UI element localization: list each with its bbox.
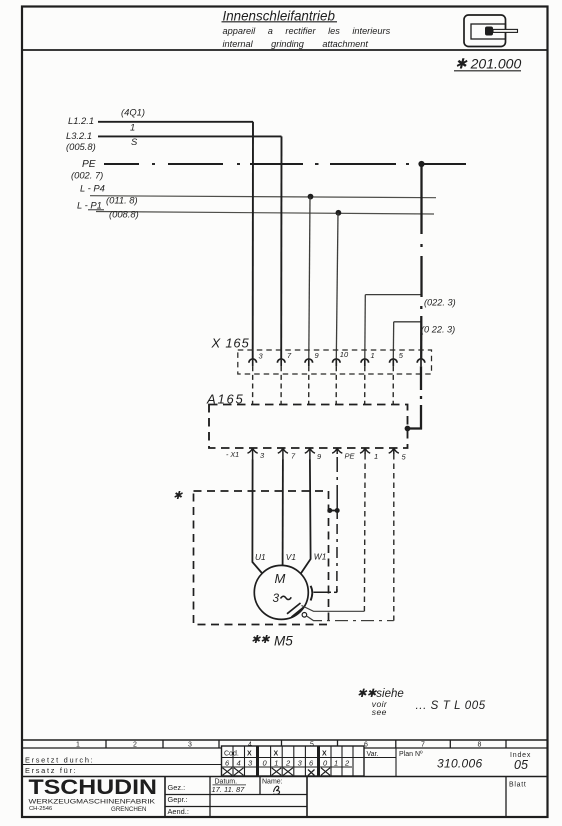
svg-text:Aend.:: Aend.:	[168, 807, 189, 816]
wire A165:1 dashed down	[363, 454, 366, 611]
svg-text:Innenschleifantrieb: Innenschleifantrieb	[223, 8, 336, 23]
terminal A165:PE	[332, 448, 342, 454]
module A165 dashed box	[209, 405, 408, 449]
svg-text:0: 0	[263, 759, 268, 768]
terminal X165:9	[305, 359, 313, 366]
wire (0 22.3) vertical drop to X165 terminal 5	[392, 322, 394, 359]
gez row line	[165, 794, 307, 796]
terminal A165:1	[360, 448, 370, 454]
svg-text:2: 2	[344, 759, 350, 768]
wire A165:7 to motor V1	[282, 460, 284, 566]
svg-text:M5: M5	[274, 634, 293, 649]
svg-text:Gez.:: Gez.:	[168, 783, 186, 792]
junction dot on A165 right edge	[405, 426, 411, 432]
revision X marks row3	[223, 768, 331, 776]
svg-text:05: 05	[514, 758, 528, 772]
terminal A165:5	[389, 448, 399, 454]
svg-text:PE: PE	[345, 452, 356, 461]
svg-text:3: 3	[188, 741, 192, 748]
svg-text:1: 1	[334, 759, 338, 768]
svg-text:9: 9	[315, 351, 320, 360]
wire L3 horizontal	[98, 135, 282, 137]
ersetzt row divider line	[22, 764, 222, 766]
svg-text:(4Q1): (4Q1)	[121, 107, 145, 118]
svg-text:CH-2546: CH-2546	[29, 806, 52, 812]
svg-text:PE: PE	[82, 159, 96, 170]
svg-text:4: 4	[237, 759, 241, 768]
wire L-P4 horizontal	[90, 196, 436, 198]
svg-text:✱: ✱	[173, 490, 183, 502]
terminal X165:5	[390, 359, 398, 366]
terminal A165:9	[305, 448, 315, 460]
svg-text:3: 3	[248, 759, 253, 768]
svg-text:2: 2	[133, 741, 137, 748]
svg-text:Name:: Name:	[262, 779, 283, 786]
number row dividers	[105, 740, 107, 748]
svg-text:X 165: X 165	[211, 335, 250, 350]
PE-shield bond double dot junction	[330, 510, 337, 512]
motor earth terminal arc	[311, 586, 313, 601]
code digits	[225, 759, 350, 768]
number row bottom line	[22, 747, 222, 749]
wire A165:PE dash-dot down	[336, 457, 338, 511]
header separator line	[22, 49, 548, 51]
svg-text:U1: U1	[255, 552, 266, 562]
wire (022.3) vertical drop to X165 terminal 1	[364, 295, 367, 359]
L-P1 label underline	[88, 209, 104, 211]
svg-text:6: 6	[225, 759, 230, 768]
wire PE dash-dot down to motor earth terminal	[314, 511, 338, 593]
svg-text:S: S	[131, 136, 138, 147]
terminal X165:7	[277, 359, 285, 366]
connector X165 dashed box	[238, 350, 432, 374]
svg-text:2: 2	[285, 759, 291, 768]
terminal X165:PE (unlabeled)	[417, 359, 425, 366]
svg-text:(005.8): (005.8)	[66, 141, 96, 152]
wire PE dash-dot horizontal	[104, 163, 466, 165]
svg-text:appareil a rectifier les inter: appareil a rectifier les interieurs	[223, 26, 391, 36]
junction dot PE	[418, 161, 424, 167]
second band bottom line	[22, 776, 548, 778]
wire L3 vertical drop to X165 terminal 7	[280, 136, 282, 358]
svg-text:(008.8): (008.8)	[109, 209, 139, 220]
wire X165:7 to A165 dashed	[280, 366, 282, 404]
terminal X165:10	[333, 359, 341, 366]
title block top line	[22, 739, 548, 741]
svg-text:✱✱: ✱✱	[251, 634, 270, 646]
wire PE link into A165 right edge	[408, 427, 423, 429]
svg-text:X: X	[274, 751, 279, 758]
svg-text:5: 5	[399, 351, 404, 360]
revision code grid	[222, 746, 397, 777]
small o terminal	[302, 613, 307, 618]
svg-text:6: 6	[364, 741, 368, 748]
svg-text:6: 6	[309, 759, 314, 768]
gepr row line	[165, 806, 307, 808]
junction dot on L-P1	[336, 210, 342, 216]
svg-text:Blatt: Blatt	[509, 781, 527, 788]
wire A165:5 dashed down	[393, 454, 395, 621]
svg-text:✱ 201.000: ✱ 201.000	[455, 55, 521, 71]
terminal X165:3	[249, 359, 257, 366]
svg-text:- X1: - X1	[226, 450, 239, 459]
icon grinding wheel	[485, 27, 493, 36]
terminal X165:1	[361, 359, 369, 366]
svg-text:see: see	[372, 707, 387, 717]
third band cell dividers	[164, 777, 166, 818]
junction dot on L-P4	[308, 194, 314, 200]
svg-text:3: 3	[298, 759, 303, 768]
wire o to terminal5 line dash-dot	[307, 616, 394, 620]
wire X165:PE heavy down right of A165	[408, 366, 423, 429]
svg-text:9: 9	[317, 452, 322, 461]
wire L-P1 horizontal	[96, 212, 434, 215]
svg-text:W1: W1	[314, 552, 327, 562]
svg-text:(0 22. 3): (0 22. 3)	[421, 325, 455, 335]
wire X165:10 to A165 dashed	[335, 366, 337, 404]
svg-text:X: X	[322, 751, 327, 758]
svg-text:5: 5	[310, 741, 314, 748]
svg-text:3: 3	[273, 591, 280, 605]
svg-text:internal grinding attachment: internal grinding attachment	[223, 39, 369, 49]
title underline	[222, 21, 338, 23]
terminal A165:7	[278, 448, 288, 460]
svg-text:... S T L 005: ... S T L 005	[416, 700, 486, 712]
wire X165:9 to A165 dashed	[308, 366, 310, 404]
svg-text:5: 5	[402, 453, 407, 462]
svg-text:(022. 3): (022. 3)	[424, 298, 456, 308]
svg-text:M: M	[275, 571, 286, 586]
svg-text:3: 3	[260, 451, 265, 460]
svg-text:Cod.: Cod.	[224, 750, 239, 757]
svg-text:(011. 8): (011. 8)	[106, 195, 138, 206]
motor shield dashed box	[194, 491, 329, 625]
svg-text:(002. 7): (002. 7)	[71, 170, 103, 181]
svg-text:L - P4: L - P4	[80, 183, 105, 194]
svg-text:4: 4	[248, 741, 252, 748]
motor M5 circle	[254, 565, 308, 619]
wire PE heavy dash-dot vertical	[420, 164, 423, 359]
svg-text:3: 3	[259, 352, 264, 361]
201.000 underline	[454, 70, 521, 72]
svg-text:Var.: Var.	[367, 751, 379, 758]
svg-text:1: 1	[274, 759, 278, 768]
svg-text:7: 7	[291, 452, 296, 461]
svg-text:Plan Nº: Plan Nº	[399, 751, 423, 758]
svg-text:310.006: 310.006	[437, 757, 483, 771]
wire from (0 22.3) horizontal	[394, 321, 422, 323]
svg-text:0: 0	[323, 759, 328, 768]
var cell	[395, 748, 397, 777]
signature underline	[213, 784, 247, 786]
wire L-P4 vertical drop to X165 terminal 9	[309, 197, 310, 359]
svg-text:1: 1	[130, 122, 135, 133]
svg-text:TSCHUDIN: TSCHUDIN	[29, 776, 158, 799]
svg-text:Ersetzt durch:: Ersetzt durch:	[25, 756, 94, 765]
wire X165:1 to A165 dashed	[364, 366, 366, 404]
svg-text:17. 11. 87: 17. 11. 87	[212, 785, 246, 794]
wire X165:5 to A165 dashed	[392, 366, 394, 404]
svg-text:WERKZEUGMASCHINENFABRIK: WERKZEUGMASCHINENFABRIK	[29, 798, 156, 805]
svg-text:1: 1	[76, 741, 80, 748]
wire A165:9 to motor W1	[301, 460, 311, 574]
svg-text:Gepr.:: Gepr.:	[168, 795, 188, 804]
svg-text:L - P1: L - P1	[77, 200, 102, 211]
svg-text:V1: V1	[286, 552, 296, 562]
svg-text:7: 7	[421, 741, 425, 748]
svg-text:8: 8	[478, 741, 482, 748]
svg-text:1: 1	[371, 351, 375, 360]
svg-text:L1.2.1: L1.2.1	[68, 115, 94, 126]
icon grinding attachment box	[464, 15, 506, 47]
wire frame to terminal1 line	[302, 606, 365, 612]
svg-text:L3.2.1: L3.2.1	[66, 130, 92, 141]
svg-text:10: 10	[340, 350, 349, 359]
terminal A165:3	[248, 448, 258, 460]
svg-text:7: 7	[287, 351, 292, 360]
icon spindle shaft	[493, 29, 518, 32]
svg-text:GRENCHEN: GRENCHEN	[111, 806, 146, 813]
signature squiggle	[273, 786, 279, 794]
wire A165:3 to motor U1	[252, 460, 262, 574]
wire L1 vertical drop to X165 terminal 3	[252, 122, 254, 359]
svg-text:Ersatz für:: Ersatz für:	[25, 766, 77, 775]
wire X165:3 to A165 dashed	[252, 366, 254, 404]
motor frame earth slash	[287, 603, 301, 614]
svg-text:X: X	[247, 751, 252, 758]
wire from (022.3) horizontal	[365, 294, 421, 296]
svg-text:1: 1	[374, 452, 378, 461]
wire L1 horizontal	[98, 121, 253, 123]
wire L-P1 vertical drop to X165 terminal 10	[336, 213, 338, 359]
